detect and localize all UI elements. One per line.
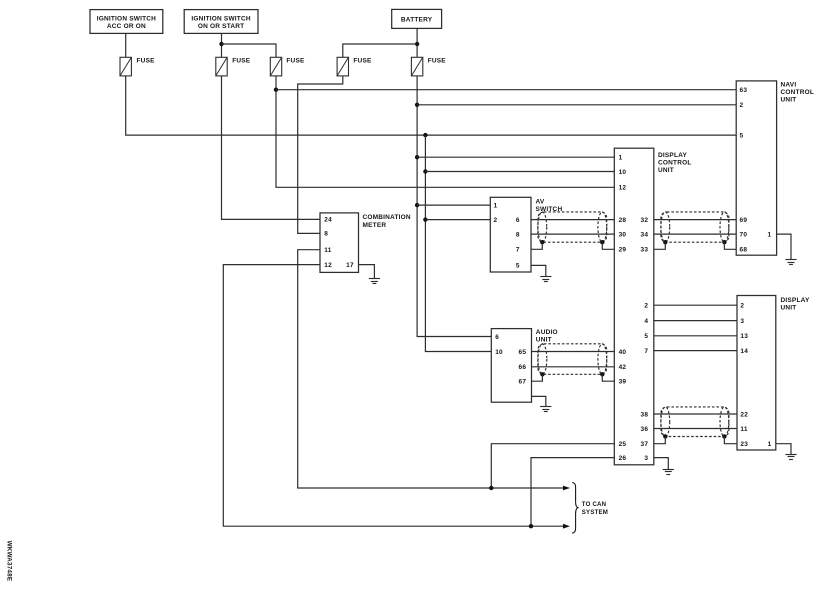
svg-text:BATTERY: BATTERY	[401, 16, 433, 23]
ground at NAVI pin 1	[785, 259, 796, 261]
wire fuse F5 trunk to audio unit pin 6	[417, 76, 491, 337]
svg-text:SYSTEM: SYSTEM	[582, 509, 608, 516]
fuse F2	[216, 57, 251, 76]
junction dot shield3 right drain	[600, 372, 604, 376]
svg-text:WKWA3748E: WKWA3748E	[5, 541, 12, 582]
svg-text:METER: METER	[363, 222, 387, 229]
svg-text:1: 1	[767, 231, 771, 238]
wire NAVI pin 1 to ground	[777, 234, 791, 260]
wire display unit pin 1 to ground	[776, 444, 791, 455]
shielded cable DCU to NAVI	[661, 212, 729, 242]
junction dot below battery	[415, 42, 419, 46]
display control unit box	[614, 148, 691, 465]
wire branch to NAVI pin 2	[417, 104, 736, 106]
svg-text:6: 6	[516, 217, 520, 224]
svg-text:33: 33	[641, 247, 649, 254]
junction dot F5 trunk at AV switch 1 branch	[415, 203, 419, 207]
wire battery to fuse F5	[416, 28, 418, 57]
svg-text:11: 11	[740, 426, 747, 433]
svg-text:12: 12	[619, 185, 627, 192]
svg-text:3: 3	[644, 455, 648, 462]
svg-text:28: 28	[619, 217, 627, 224]
svg-text:34: 34	[641, 231, 649, 238]
svg-text:2: 2	[740, 102, 744, 109]
svg-text:70: 70	[740, 231, 748, 238]
svg-text:24: 24	[324, 217, 332, 224]
svg-text:FUSE: FUSE	[353, 57, 372, 64]
svg-text:IGNITION SWITCH: IGNITION SWITCH	[97, 15, 156, 22]
junction dot shield1 right drain	[600, 240, 604, 244]
ignition switch 1 box (ACC OR ON)	[90, 10, 163, 34]
svg-text:COMBINATION: COMBINATION	[363, 214, 411, 221]
junction dot shield2 left drain	[663, 240, 667, 244]
svg-text:66: 66	[519, 364, 527, 371]
wire fuse F4 to combination meter pin 8	[298, 76, 343, 234]
wire fuse F2 to combination meter pin 24	[222, 76, 321, 220]
svg-text:ON OR START: ON OR START	[198, 23, 245, 30]
wire shield2 drain to DCU pin 33	[654, 242, 666, 249]
navi control unit box	[736, 81, 814, 255]
svg-text:3: 3	[740, 318, 744, 325]
wire audio 66 to DCU 42	[532, 366, 615, 368]
svg-text:26: 26	[619, 455, 627, 462]
wire DCU 7 to display unit 14	[654, 350, 737, 352]
svg-text:8: 8	[324, 231, 328, 238]
wire branch to display control unit pin 10	[425, 171, 614, 173]
wire DCU 38 to display unit 22	[654, 413, 737, 415]
shielded cable audio unit to DCU	[538, 344, 607, 375]
fuse F5	[411, 57, 446, 76]
wire shield3 drain to DCU pin 39	[602, 374, 614, 381]
junction dot below ignition switch 2	[219, 42, 223, 46]
svg-text:23: 23	[740, 441, 748, 448]
wire DCU 36 to display unit 11	[654, 428, 737, 430]
svg-text:CONTROL: CONTROL	[781, 89, 815, 96]
svg-text:7: 7	[644, 348, 648, 355]
junction dot shield2 right drain	[722, 240, 726, 244]
svg-text:IGNITION SWITCH: IGNITION SWITCH	[191, 15, 250, 22]
svg-text:ACC OR ON: ACC OR ON	[107, 23, 146, 30]
svg-text:UNIT: UNIT	[536, 336, 552, 343]
svg-text:17: 17	[346, 262, 354, 269]
wire second trunk to audio unit pin 10	[425, 135, 491, 351]
svg-text:CONTROL: CONTROL	[658, 159, 692, 166]
svg-text:5: 5	[740, 132, 744, 139]
wire shield1 drain to DCU pin 29	[602, 242, 614, 249]
svg-text:5: 5	[516, 263, 520, 270]
wire DCU 5 to display unit 13	[654, 335, 737, 337]
junction dot shield3 left drain	[540, 372, 544, 376]
svg-text:UNIT: UNIT	[781, 305, 797, 312]
wire fuse F3 down	[276, 76, 614, 187]
svg-text:FUSE: FUSE	[137, 57, 156, 64]
svg-text:65: 65	[519, 349, 527, 356]
wire shield4 drain to DCU pin 37	[654, 437, 666, 444]
wire junction to fuse F3	[222, 44, 277, 57]
wire branch to AV switch pin 1	[417, 204, 490, 206]
wire DCU 34 to NAVI 70	[654, 233, 736, 235]
ground at combination meter pin 17	[369, 278, 380, 280]
junction dot F5 trunk at DCU 1 branch	[415, 155, 419, 159]
junction dot CAN line 1	[489, 486, 493, 490]
wire DCU pin 26 to CAN line 2	[531, 458, 614, 527]
svg-text:13: 13	[740, 333, 748, 340]
svg-text:25: 25	[619, 441, 627, 448]
wire shield2 drain to NAVI pin 68	[724, 242, 736, 249]
svg-text:67: 67	[519, 379, 527, 386]
wire combination meter pin 17 to ground	[359, 265, 375, 279]
wire battery junction to fuse F4	[343, 44, 417, 57]
wire shield4 drain to display unit pin 23	[724, 437, 737, 444]
svg-text:29: 29	[619, 247, 627, 254]
wire shield1 drain to AV switch pin 7	[531, 242, 542, 249]
wire DCU 2 to display unit 2	[654, 304, 737, 306]
svg-text:UNIT: UNIT	[781, 97, 797, 104]
svg-text:5: 5	[644, 333, 648, 340]
shielded cable AV switch to DCU	[538, 212, 607, 242]
svg-text:36: 36	[641, 426, 649, 433]
svg-text:39: 39	[619, 379, 627, 386]
svg-text:10: 10	[495, 349, 503, 356]
junction dot fuse F3 branch	[274, 88, 278, 92]
svg-text:FUSE: FUSE	[286, 57, 305, 64]
svg-text:22: 22	[740, 411, 748, 418]
junction dot shield4 right drain	[722, 434, 726, 438]
junction dot second trunk at AV switch 2 branch	[423, 217, 427, 221]
svg-text:DISPLAY: DISPLAY	[658, 152, 687, 159]
svg-text:2: 2	[494, 217, 498, 224]
fuse F1	[120, 57, 155, 76]
wire AV switch 8 to DCU 30	[531, 233, 614, 235]
svg-text:FUSE: FUSE	[428, 57, 447, 64]
display unit box	[737, 296, 810, 451]
junction dot second trunk at DCU 10 branch	[423, 169, 427, 173]
battery box	[392, 9, 442, 28]
junction dot on NAVI-5 line at second trunk	[423, 133, 427, 137]
junction dot F5 trunk at NAVI 2 branch	[415, 103, 419, 107]
wire DCU pin 25 to CAN line 1	[491, 444, 614, 488]
svg-text:NAVI: NAVI	[781, 81, 797, 88]
svg-text:2: 2	[740, 303, 744, 310]
junction dot shield4 left drain	[663, 434, 667, 438]
wire branch to AV switch pin 2	[425, 219, 490, 221]
fuse F4	[337, 57, 372, 76]
junction dot CAN line 2	[529, 524, 533, 528]
svg-text:12: 12	[324, 262, 332, 269]
wire audio unit case to ground	[532, 396, 546, 407]
ignition switch 2 box (ON OR START)	[184, 10, 258, 34]
wire combination meter pin 11 to CAN line 1	[298, 250, 563, 488]
junction dot shield1 left drain	[540, 240, 544, 244]
combination meter box	[320, 213, 411, 273]
svg-text:32: 32	[641, 217, 649, 224]
wire AV switch pin 5 to ground	[531, 265, 546, 276]
svg-text:38: 38	[641, 411, 649, 418]
wire fuse F3 branch to NAVI pin 63	[276, 89, 736, 91]
ground at AV switch pin 5	[540, 276, 551, 278]
ground at audio unit	[540, 406, 551, 408]
svg-text:68: 68	[740, 247, 748, 254]
svg-text:7: 7	[516, 247, 520, 254]
svg-text:8: 8	[516, 231, 520, 238]
wire DCU 32 to NAVI 69	[654, 219, 736, 221]
svg-text:UNIT: UNIT	[658, 167, 674, 174]
svg-text:TO CAN: TO CAN	[582, 501, 606, 508]
svg-text:14: 14	[740, 348, 748, 355]
svg-text:30: 30	[619, 231, 627, 238]
svg-text:37: 37	[641, 441, 649, 448]
svg-text:4: 4	[644, 318, 648, 325]
svg-text:AUDIO: AUDIO	[536, 329, 558, 336]
wire fuse F1 to NAVI pin 5	[126, 76, 737, 135]
svg-text:69: 69	[740, 217, 748, 224]
shielded cable DCU to display unit	[661, 407, 729, 437]
wire AV switch 6 to DCU 28	[531, 219, 614, 221]
label TO CAN SYSTEM	[582, 501, 608, 516]
wire combination meter pin 12 to CAN line 2	[223, 265, 563, 527]
wire audio 65 to DCU 40	[532, 351, 615, 353]
svg-text:DISPLAY: DISPLAY	[781, 297, 810, 304]
svg-text:10: 10	[619, 169, 627, 176]
svg-text:40: 40	[619, 349, 627, 356]
arrow CAN line 1	[563, 486, 570, 491]
arrow CAN line 2	[563, 524, 570, 529]
ground at DCU pin 3	[663, 469, 674, 471]
ground at display unit pin 1	[785, 454, 796, 456]
wire ignition2 to fuse F2	[221, 33, 223, 57]
svg-text:1: 1	[619, 155, 623, 162]
audio unit box	[491, 329, 557, 403]
svg-text:6: 6	[495, 334, 499, 341]
svg-text:1: 1	[768, 441, 772, 448]
brace for CAN system	[572, 482, 578, 533]
wire DCU pin 3 to ground	[654, 458, 669, 470]
wire ignition1 to fuse F1	[125, 33, 127, 57]
AV switch box	[490, 197, 562, 272]
wire shield3 drain to audio pin 67	[532, 374, 543, 381]
svg-text:AV: AV	[536, 198, 545, 205]
wire branch to display control unit pin 1	[417, 156, 614, 158]
svg-text:63: 63	[740, 87, 748, 94]
fuse F3	[270, 57, 305, 76]
svg-text:FUSE: FUSE	[232, 57, 251, 64]
svg-text:1: 1	[494, 202, 498, 209]
svg-text:42: 42	[619, 364, 627, 371]
svg-text:11: 11	[324, 247, 331, 254]
wire DCU 4 to display unit 3	[654, 320, 737, 322]
svg-text:2: 2	[644, 303, 648, 310]
